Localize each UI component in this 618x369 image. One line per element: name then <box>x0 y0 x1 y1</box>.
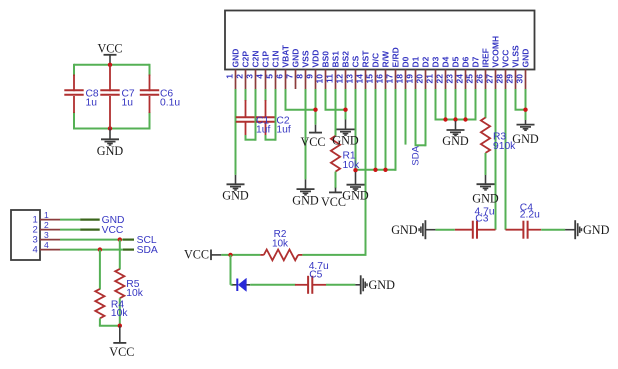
wire D1 to D2 <box>415 144 426 146</box>
svg-text:C2P: C2P <box>241 51 251 68</box>
wire pin10 BS0 down <box>325 89 327 110</box>
wire SCL down to R5 <box>119 240 121 270</box>
svg-text:GND: GND <box>472 192 499 206</box>
wire R5 to VCC rail <box>119 298 121 327</box>
ground symbol pin13 <box>355 172 357 185</box>
ground symbol under capacitor bank <box>109 129 111 140</box>
svg-text:3: 3 <box>44 230 49 240</box>
wire connector pin2 <box>60 229 80 231</box>
capacitor C1 <box>245 100 247 118</box>
pin 22 D4 stub <box>445 70 447 90</box>
svg-text:D7: D7 <box>471 56 481 67</box>
svg-text:10k: 10k <box>111 308 128 319</box>
svg-text:VSS: VSS <box>301 50 311 67</box>
power flag VCC left of R2 <box>210 250 212 261</box>
svg-text:BS0: BS0 <box>321 51 331 68</box>
svg-text:VCC: VCC <box>97 42 122 56</box>
wire pin22 D4 down <box>445 89 447 120</box>
wire pin8 VSS down <box>305 89 307 179</box>
wire junction down to diode row <box>230 255 232 285</box>
resistor R5 10k <box>115 269 124 298</box>
ground symbol pin8 <box>305 179 307 189</box>
svg-text:GND: GND <box>97 144 124 158</box>
svg-text:D5: D5 <box>451 56 461 67</box>
svg-text:GND: GND <box>583 223 610 237</box>
wire pin20 D2 down <box>425 89 427 146</box>
pin 14 RST stub <box>365 70 367 90</box>
svg-text:D1: D1 <box>411 56 421 67</box>
wire VCOMH corner to C3 <box>489 229 496 231</box>
wire D3 to D7 <box>435 119 476 121</box>
pin 2 C2P stub <box>245 70 247 90</box>
svg-text:D4: D4 <box>441 56 451 67</box>
capacitor C6 <box>149 75 151 92</box>
wire pin23 D5 down <box>455 89 457 121</box>
svg-text:17: 17 <box>384 74 394 84</box>
wire diode to C5 <box>250 284 295 286</box>
svg-text:BS2: BS2 <box>341 51 351 68</box>
wire pin13 CS down <box>355 89 357 171</box>
wire pin9 VDD down <box>315 89 317 125</box>
label VCC leader <box>80 229 100 231</box>
wire left side of bank <box>73 64 75 76</box>
ground flag right of C5 <box>355 284 360 286</box>
svg-text:10k: 10k <box>126 288 143 299</box>
wire pin18 D0 down <box>405 89 407 145</box>
wire VBAT to VDD <box>285 109 316 111</box>
pin 26 IREF stub <box>485 70 487 90</box>
svg-text:16: 16 <box>374 74 384 84</box>
label GND leader <box>80 219 100 221</box>
wire connector pin4 SDA <box>60 249 123 251</box>
svg-text:GND: GND <box>222 189 249 203</box>
svg-text:22: 22 <box>434 74 444 84</box>
IC U1 OLED 30-pin box <box>225 11 535 70</box>
pin 28 VCC stub <box>505 70 507 90</box>
svg-text:13: 13 <box>344 74 354 84</box>
pin 21 D3 stub <box>435 70 437 90</box>
junction at D5 <box>453 117 457 121</box>
pin 13 CS stub <box>355 70 357 90</box>
svg-text:GND: GND <box>442 134 469 148</box>
svg-text:D/C: D/C <box>371 53 381 68</box>
power flag VCC (top-left) <box>109 55 111 65</box>
svg-text:1u: 1u <box>122 97 134 108</box>
svg-text:4: 4 <box>254 74 264 79</box>
svg-text:4: 4 <box>44 240 49 250</box>
svg-text:GND: GND <box>332 134 359 148</box>
junction at BS2 <box>343 108 347 112</box>
svg-text:C3: C3 <box>475 214 488 225</box>
svg-text:14: 14 <box>354 74 364 84</box>
junction SCL to R5 <box>118 237 122 241</box>
svg-text:D3: D3 <box>431 56 441 67</box>
pin 19 D1 stub <box>415 70 417 90</box>
power flag VCC under pull-ups <box>119 326 121 343</box>
pin 8 VSS stub <box>305 70 307 90</box>
ground symbol pin30 <box>525 120 527 125</box>
wire pin2 down <box>245 89 247 101</box>
svg-text:1u: 1u <box>86 97 98 108</box>
wire pin12 BS2 down <box>345 89 347 120</box>
svg-text:VCC: VCC <box>109 345 134 359</box>
svg-text:20: 20 <box>414 74 424 84</box>
svg-text:C1P: C1P <box>261 51 271 68</box>
svg-text:30: 30 <box>514 74 524 84</box>
pin 16 R/W stub <box>385 70 387 90</box>
capacitor C5 4.7u <box>295 284 308 286</box>
svg-text:GND: GND <box>342 188 369 202</box>
svg-text:C2N: C2N <box>251 50 261 67</box>
diode D1 <box>233 284 238 286</box>
wire right side of bank <box>149 64 151 76</box>
wire C4 to ground flag <box>541 229 565 231</box>
svg-text:SDA: SDA <box>137 245 158 256</box>
pin 1 GND stub <box>235 70 237 90</box>
pin 20 D2 stub <box>425 70 427 90</box>
wire SDA down to R4 <box>99 250 101 290</box>
wire bottom rail of C6-C8 bank <box>74 128 150 130</box>
wire pin24 D6 down <box>465 89 467 120</box>
label SDA leader <box>123 249 134 251</box>
wire VCC to R2 <box>221 254 260 256</box>
pin 17 E/RD stub <box>395 70 397 90</box>
resistor R1 10k <box>331 136 340 172</box>
svg-text:VDD: VDD <box>311 50 321 68</box>
svg-text:0.1u: 0.1u <box>160 97 180 108</box>
svg-text:VCC: VCC <box>501 50 511 68</box>
resistor R3 910k <box>481 118 490 153</box>
capacitor C8 <box>73 75 75 92</box>
svg-text:7: 7 <box>284 74 294 79</box>
svg-text:C5: C5 <box>309 269 322 280</box>
svg-text:18: 18 <box>394 74 404 84</box>
capacitor C7 <box>109 65 111 91</box>
resistor R4 10k <box>95 289 104 318</box>
svg-text:6: 6 <box>274 74 284 79</box>
wire R3 to ground <box>485 153 487 175</box>
pin 4 C1P stub <box>265 70 267 90</box>
svg-text:10k: 10k <box>343 160 360 171</box>
wire C5 to ground flag <box>326 284 355 286</box>
svg-text:19: 19 <box>404 74 414 84</box>
svg-text:2: 2 <box>44 220 49 230</box>
svg-text:10: 10 <box>314 74 324 84</box>
connector J1 box <box>11 210 40 260</box>
wire pin29 VLSS down <box>515 89 517 110</box>
wire CS to E/RD <box>356 169 396 171</box>
pin 30 GND stub <box>525 70 527 90</box>
svg-text:15: 15 <box>364 74 374 84</box>
svg-text:4: 4 <box>33 245 38 256</box>
svg-text:CS: CS <box>351 55 361 67</box>
svg-text:1uf: 1uf <box>276 125 290 136</box>
svg-text:29: 29 <box>504 74 514 84</box>
svg-text:VBAT: VBAT <box>281 44 291 67</box>
svg-text:11: 11 <box>324 74 334 83</box>
junction at D/C <box>373 168 377 172</box>
ground symbol pin12 <box>345 120 347 130</box>
svg-text:28: 28 <box>494 74 504 84</box>
svg-text:5: 5 <box>264 74 274 79</box>
capacitor C3 4.7u <box>477 229 489 231</box>
wire R1 to VCC <box>335 172 337 189</box>
ground symbol under R3 <box>485 175 487 184</box>
ground symbol pin23 <box>455 121 457 130</box>
pin 15 D/C stub <box>375 70 377 90</box>
svg-text:2: 2 <box>234 74 244 79</box>
svg-text:VCC: VCC <box>184 248 209 262</box>
ground symbol pin1 <box>235 175 237 184</box>
wire pin11 BS1 down <box>335 89 337 137</box>
junction at GND rail <box>108 126 112 130</box>
wire R4 to VCC rail <box>99 318 101 325</box>
power flag VCC under R1 <box>335 188 337 193</box>
svg-text:D0: D0 <box>401 56 411 67</box>
svg-text:25: 25 <box>464 74 474 84</box>
svg-text:10k: 10k <box>272 239 289 250</box>
svg-text:VCOMH: VCOMH <box>491 36 501 68</box>
resistor R2 10k <box>260 254 264 256</box>
wire pin16 R/W down <box>385 89 387 170</box>
svg-text:26: 26 <box>474 74 484 84</box>
connector pin 2 stub <box>40 229 60 231</box>
junction at D4 <box>443 117 447 121</box>
svg-text:E/RD: E/RD <box>391 47 401 67</box>
pin 24 D6 stub <box>465 70 467 90</box>
svg-text:GND: GND <box>512 132 539 146</box>
svg-text:3: 3 <box>244 74 254 79</box>
pin 6 VBAT stub <box>285 70 287 90</box>
pin 29 VLSS stub <box>515 70 517 90</box>
wire pin14 RST down to reset circuit <box>365 89 367 255</box>
junction at D6 <box>463 117 467 121</box>
wire pin28 VCC down <box>505 89 507 230</box>
junction at VDD <box>313 108 317 112</box>
wire VLSS to GND pin <box>515 109 526 111</box>
pin 3 C2N stub <box>255 70 257 90</box>
svg-text:GND: GND <box>391 223 418 237</box>
wire pin26 IREF down <box>485 89 487 118</box>
svg-text:GND: GND <box>231 49 241 68</box>
capacitor C4 2.2u <box>506 229 524 231</box>
svg-text:R/W: R/W <box>381 50 391 68</box>
svg-text:24: 24 <box>454 74 464 84</box>
connector pin 3 stub <box>40 239 60 241</box>
wire C3 to ground flag <box>435 229 454 231</box>
svg-text:GND: GND <box>292 194 319 208</box>
label SCL leader <box>123 239 134 241</box>
pin 12 BS2 stub <box>345 70 347 90</box>
pin 25 D7 stub <box>475 70 477 90</box>
ground flag right of C4 <box>565 229 575 231</box>
wire pin15 D/C down <box>375 89 377 170</box>
svg-text:VCC: VCC <box>102 225 124 236</box>
wire pin30 GND down <box>525 89 527 120</box>
pin 11 BS1 stub <box>335 70 337 90</box>
junction SDA to R4 <box>98 247 102 251</box>
ground flag left of C3 <box>425 229 435 231</box>
power flag VCC under VDD <box>315 125 317 133</box>
wire R2 to pin14 <box>302 254 366 256</box>
capacitor C2 <box>265 100 267 118</box>
pin 27 VCOMH stub <box>495 70 497 90</box>
pin 23 D5 stub <box>455 70 457 90</box>
svg-text:BS1: BS1 <box>331 51 341 68</box>
pin 5 C1N stub <box>275 70 277 90</box>
svg-text:1uf: 1uf <box>256 125 270 136</box>
svg-text:RST: RST <box>361 50 371 68</box>
wire pin4 down <box>265 89 267 101</box>
svg-text:12: 12 <box>334 74 344 84</box>
svg-text:1: 1 <box>44 210 49 220</box>
svg-text:GND: GND <box>521 49 531 68</box>
svg-text:IREF: IREF <box>481 48 491 67</box>
wire pin19 D1 down <box>415 89 417 145</box>
svg-text:C1N: C1N <box>271 50 281 67</box>
pin 10 BS0 stub <box>325 70 327 90</box>
wire pin6 VBAT down <box>285 89 287 110</box>
wire bottom VCC rail <box>99 325 120 327</box>
wire pin27 VCOMH down <box>495 89 497 230</box>
wire C1 to pin3 <box>245 135 247 140</box>
wire BS0 to BS2 <box>325 109 346 111</box>
svg-text:27: 27 <box>484 74 494 84</box>
svg-text:8: 8 <box>294 74 304 79</box>
pin 18 D0 stub <box>405 70 407 90</box>
junction at pin30 <box>523 108 527 112</box>
svg-text:GND: GND <box>369 278 396 292</box>
svg-text:9: 9 <box>304 74 314 79</box>
svg-text:SDA: SDA <box>411 145 422 165</box>
wire pin21 D3 down <box>435 89 437 120</box>
connector pin 1 stub <box>40 219 60 221</box>
junction at R/W <box>383 168 387 172</box>
pin 9 VDD stub <box>315 70 317 90</box>
svg-text:2.2u: 2.2u <box>520 210 540 221</box>
connector pin 4 stub <box>40 249 60 251</box>
svg-text:D6: D6 <box>461 56 471 67</box>
wire top rail of C6-C8 bank <box>74 64 150 66</box>
svg-text:VCC: VCC <box>300 135 325 149</box>
svg-text:21: 21 <box>424 74 434 84</box>
wire connector pin1 <box>60 219 80 221</box>
junction at pull-up VCC <box>118 324 122 328</box>
svg-text:VLSS: VLSS <box>511 45 521 68</box>
junction at VCC rail <box>108 63 112 67</box>
svg-text:23: 23 <box>444 74 454 84</box>
junction reset node <box>228 253 232 257</box>
wire pin1 GND down <box>235 89 237 175</box>
pin 7 GND stub <box>295 70 297 90</box>
wire C2 to pin5 <box>265 135 267 140</box>
svg-text:1: 1 <box>224 74 234 79</box>
junction at CS <box>353 168 357 172</box>
svg-text:GND: GND <box>291 49 301 68</box>
svg-text:D2: D2 <box>421 56 431 67</box>
wire connector pin3 SCL <box>60 239 123 241</box>
